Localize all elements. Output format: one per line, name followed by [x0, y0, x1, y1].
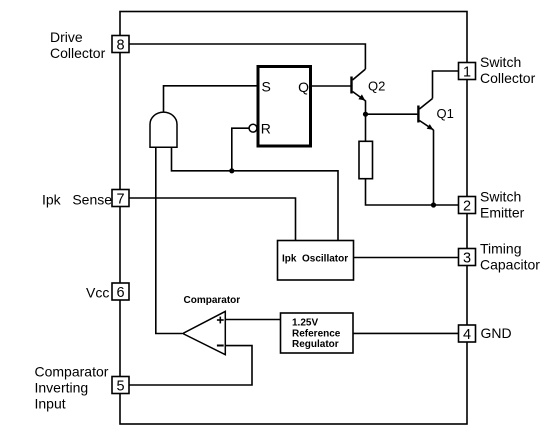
pin 5: [112, 377, 129, 395]
svg-text:R: R: [261, 120, 271, 136]
svg-text:Reference: Reference: [292, 328, 341, 339]
reference regulator block: [281, 313, 354, 353]
pin 6: [112, 283, 129, 301]
svg-text:Regulator: Regulator: [292, 339, 339, 350]
label 1.25V Reference Regulator: [292, 318, 341, 350]
junction R/AND node: [229, 168, 234, 173]
svg-text:Ipk Oscillator: Ipk Oscillator: [282, 254, 348, 265]
comparator minus input: [217, 345, 224, 347]
svg-text:Emitter: Emitter: [480, 205, 525, 221]
wire latch Q output to Q2 base: [312, 85, 351, 87]
pin 3: [459, 249, 476, 267]
svg-text:Q: Q: [298, 79, 309, 95]
wire comparator plus to reference: [225, 319, 280, 321]
wire pin7 to oscillator: [129, 198, 296, 241]
svg-text:7: 7: [116, 191, 124, 207]
wire comparator output to AND input: [156, 147, 182, 334]
comparator: [183, 311, 226, 354]
svg-text:3: 3: [463, 250, 471, 266]
label Timing Capacitor: [480, 241, 540, 273]
label Switch Collector: [480, 54, 536, 86]
wire latch R input: [232, 128, 250, 171]
wire reference to pin4: [353, 332, 459, 334]
wire Q2 emitter to node: [365, 101, 367, 115]
wire resistor to pin2: [366, 179, 459, 205]
IC outline: [120, 12, 467, 425]
wire latch S input: [164, 86, 257, 112]
svg-text:Input: Input: [35, 396, 66, 412]
label Comparator Inverting Input: [35, 364, 109, 412]
svg-text:Timing: Timing: [480, 241, 522, 257]
AND gate: [150, 112, 177, 147]
svg-text:4: 4: [463, 327, 471, 343]
wire oscillator to pin3: [354, 257, 459, 259]
svg-text:Switch: Switch: [480, 189, 521, 205]
wire node to Q1 base: [366, 113, 418, 115]
svg-text:Collector: Collector: [50, 45, 106, 61]
svg-text:Comparator: Comparator: [35, 364, 109, 380]
comparator plus input: [217, 317, 224, 324]
wire comparator minus to pin5: [129, 346, 252, 385]
label Drive Collector: [50, 29, 106, 61]
svg-text:6: 6: [116, 285, 124, 301]
wire Q1 collector to pin1: [433, 71, 459, 99]
junction Q1 emitter node: [431, 202, 436, 207]
wire Q1 emitter to pin2 node: [433, 130, 435, 205]
svg-text:1: 1: [463, 64, 471, 80]
resistor: [359, 141, 373, 178]
svg-text:Switch: Switch: [480, 54, 521, 70]
svg-text:Comparator: Comparator: [184, 295, 241, 306]
inverter bubble on R: [249, 124, 257, 132]
pin 2: [459, 197, 476, 215]
transistor Q2: [352, 69, 366, 101]
oscillator block: [278, 241, 354, 281]
pin 1: [459, 63, 476, 81]
label Switch Emitter: [480, 189, 525, 221]
wire pin8 to Q2 collector: [129, 44, 365, 69]
svg-text:Drive: Drive: [50, 29, 83, 45]
wire AND output node to oscillator: [172, 147, 339, 241]
svg-text:Capacitor: Capacitor: [480, 257, 540, 273]
svg-text:2: 2: [463, 198, 471, 214]
svg-text:Q2: Q2: [368, 78, 385, 93]
pin 4: [459, 325, 476, 343]
svg-text:GND: GND: [481, 325, 512, 341]
svg-text:8: 8: [116, 37, 124, 53]
svg-text:S: S: [262, 79, 271, 95]
pin 8: [112, 36, 129, 54]
junction Q2 emitter node: [363, 112, 368, 117]
svg-text:Vcc: Vcc: [86, 285, 109, 301]
SR latch U1: [258, 67, 311, 147]
transistor Q1: [418, 99, 433, 130]
svg-text:Ipk Sense: Ipk Sense: [42, 192, 112, 208]
svg-text:1.25V: 1.25V: [292, 318, 318, 329]
pin 7: [112, 190, 129, 208]
wire node to resistor: [365, 114, 367, 141]
svg-text:Collector: Collector: [480, 70, 536, 86]
svg-text:Q1: Q1: [437, 106, 454, 121]
svg-text:5: 5: [116, 378, 124, 394]
svg-text:Inverting: Inverting: [35, 380, 89, 396]
